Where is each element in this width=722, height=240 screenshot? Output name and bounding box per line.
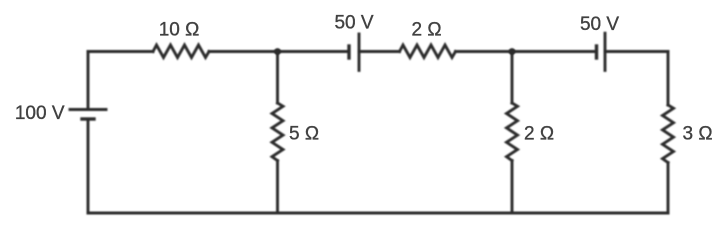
resistor R1 10 ohm (horizontal zigzag) [153, 45, 209, 58]
battery V3 50 V short plate [595, 46, 598, 58]
wire left vertical top (top-left corner down to battery V1) [87, 52, 90, 110]
svg-text:10 Ω: 10 Ω [159, 20, 200, 41]
wire bottom rail [88, 212, 668, 215]
node A junction dot [274, 48, 281, 55]
resistor R4 2 ohm (vertical zigzag) [507, 103, 518, 161]
battery V2 50 V short plate [347, 46, 350, 58]
svg-text:50 V: 50 V [580, 14, 619, 35]
wire from battery V1 down to bottom-left corner [87, 119, 90, 213]
wire top segment from left corner to resistor R1 [88, 50, 153, 53]
wire from battery V3 to top-right corner [605, 50, 668, 53]
battery V1 100 V short plate [82, 117, 94, 120]
battery V3 50 V long plate [604, 33, 607, 70]
battery V1 100 V long plate [70, 108, 106, 111]
wire from node A to battery V2 [278, 50, 350, 53]
svg-text:3 Ω: 3 Ω [683, 124, 713, 145]
wire from R3 to node B [456, 50, 513, 53]
wire from battery V2 to resistor R3 [359, 50, 400, 53]
resistor R2 5 ohm (vertical zigzag) [272, 103, 283, 161]
resistor R3 2 ohm (horizontal zigzag) [400, 45, 456, 58]
wire from R1 to node A [209, 50, 278, 53]
wire from R5 to bottom-right corner [667, 163, 670, 213]
wire from R2 to bottom wire [276, 161, 279, 213]
battery V2 50 V long plate [358, 34, 361, 70]
svg-text:5 Ω: 5 Ω [289, 124, 319, 145]
wire from node B to battery V3 [512, 50, 597, 53]
wire from R4 to bottom wire [511, 161, 514, 213]
resistor R5 3 ohm (vertical zigzag) [663, 105, 674, 163]
svg-text:2 Ω: 2 Ω [524, 124, 554, 145]
wire right vertical down to resistor R5 [667, 52, 670, 106]
node B junction dot [509, 48, 516, 55]
svg-text:50 V: 50 V [334, 13, 373, 34]
wire from node B down to resistor R4 [511, 52, 514, 104]
svg-text:2 Ω: 2 Ω [411, 20, 441, 41]
svg-text:100 V: 100 V [15, 103, 65, 124]
wire from node A down to resistor R2 [276, 52, 279, 104]
